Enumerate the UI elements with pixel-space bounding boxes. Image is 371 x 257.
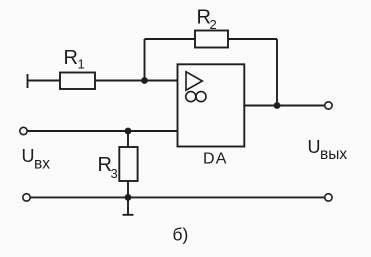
wire feedback top left <box>145 38 196 40</box>
svg-text:DA: DA <box>203 151 228 168</box>
wire feedback vertical right <box>276 39 278 106</box>
svg-text:R: R <box>64 47 78 69</box>
op-amp infinity gain symbol <box>186 92 196 102</box>
svg-text:2: 2 <box>210 17 217 32</box>
svg-text:вх: вх <box>34 156 50 173</box>
wire R3 top <box>127 131 129 147</box>
svg-text:1: 1 <box>78 56 85 71</box>
terminal output circle <box>325 102 332 109</box>
svg-text:вых: вых <box>320 146 347 163</box>
wire op-amp output <box>244 105 324 107</box>
wire feedback top right <box>228 38 277 40</box>
svg-text:б): б) <box>173 225 189 245</box>
wire input to R1 <box>28 80 61 82</box>
resistor R1 <box>60 73 95 90</box>
wire R1 to op-amp input 1 <box>95 80 178 82</box>
wire input 2 to op-amp <box>27 130 177 132</box>
ground bar <box>123 214 134 216</box>
wire R3 bottom <box>127 181 129 197</box>
node junction ground <box>125 194 132 201</box>
node junction R3 top <box>125 128 132 135</box>
terminal input 2 circle <box>20 127 27 134</box>
input terminal bar <box>27 74 29 88</box>
node junction feedback/input <box>141 77 148 84</box>
node output junction <box>274 102 281 109</box>
resistor R2 <box>195 31 228 48</box>
ground stem <box>127 197 129 214</box>
terminal lower left circle <box>23 194 30 201</box>
op-amp U1 body DA <box>178 64 245 146</box>
terminal lower right circle <box>325 194 332 201</box>
wire feedback vertical left <box>144 39 146 81</box>
svg-text:U: U <box>308 137 321 157</box>
svg-text:U: U <box>22 146 35 166</box>
svg-text:3: 3 <box>111 166 118 181</box>
op-amp amplifier triangle symbol <box>186 72 202 90</box>
wire bottom rail <box>30 196 325 198</box>
resistor R3 <box>119 147 137 181</box>
